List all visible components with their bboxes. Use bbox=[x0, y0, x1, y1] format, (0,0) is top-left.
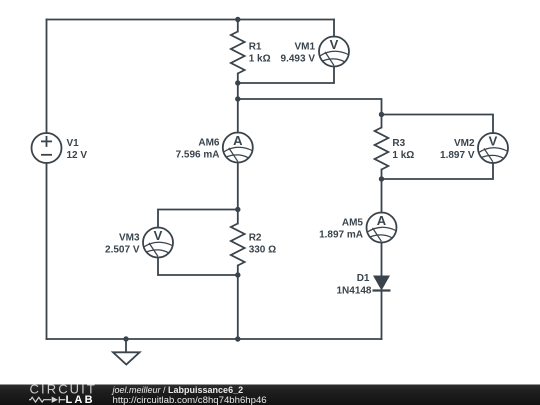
svg-text:7.596 mA: 7.596 mA bbox=[176, 150, 220, 161]
svg-text:R1: R1 bbox=[249, 42, 262, 53]
svg-text:R2: R2 bbox=[249, 233, 262, 244]
svg-text:1 kΩ: 1 kΩ bbox=[392, 150, 414, 161]
svg-text:VM3: VM3 bbox=[119, 233, 140, 244]
svg-text:V1: V1 bbox=[67, 138, 80, 149]
svg-text:VM1: VM1 bbox=[294, 42, 315, 53]
svg-text:LAB: LAB bbox=[66, 394, 95, 405]
svg-text:9.493 V: 9.493 V bbox=[281, 54, 316, 65]
svg-text:330 Ω: 330 Ω bbox=[249, 245, 276, 256]
svg-text:VM2: VM2 bbox=[454, 138, 475, 149]
svg-text:D1: D1 bbox=[357, 273, 370, 284]
svg-text:V: V bbox=[154, 228, 163, 243]
svg-text:1 kΩ: 1 kΩ bbox=[249, 54, 271, 65]
svg-text:1.897 mA: 1.897 mA bbox=[319, 230, 363, 241]
svg-text:AM5: AM5 bbox=[342, 218, 364, 229]
svg-text:AM6: AM6 bbox=[198, 138, 220, 149]
svg-text:http://circuitlab.com/c8hq74bh: http://circuitlab.com/c8hq74bh6hp46 bbox=[113, 395, 267, 405]
svg-text:V: V bbox=[489, 133, 498, 148]
svg-text:A: A bbox=[377, 213, 387, 228]
svg-text:1.897 V: 1.897 V bbox=[440, 150, 475, 161]
svg-text:1N4148: 1N4148 bbox=[336, 286, 371, 297]
svg-text:2.507 V: 2.507 V bbox=[105, 245, 140, 256]
svg-text:joel.meilleur / Labpuissance6_: joel.meilleur / Labpuissance6_2 bbox=[112, 385, 244, 395]
svg-text:R3: R3 bbox=[392, 138, 405, 149]
svg-text:V: V bbox=[330, 37, 339, 52]
svg-text:A: A bbox=[233, 133, 243, 148]
svg-text:12 V: 12 V bbox=[67, 150, 88, 161]
